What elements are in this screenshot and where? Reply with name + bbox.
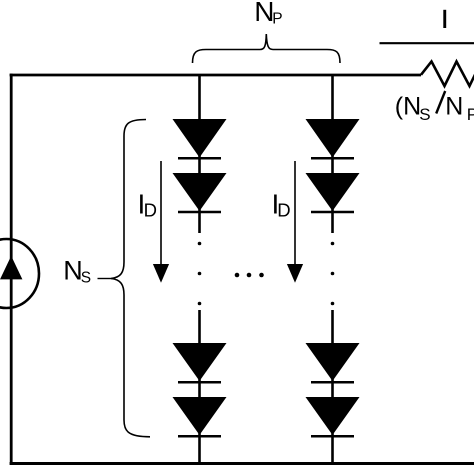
svg-text:P: P	[467, 105, 474, 124]
svg-text:S: S	[81, 269, 91, 286]
svg-text:S: S	[419, 105, 430, 124]
svg-text:D: D	[144, 200, 157, 221]
svg-text:P: P	[272, 10, 282, 27]
svg-text:(N: (N	[395, 93, 421, 121]
svg-text:D: D	[277, 200, 290, 221]
svg-text:N: N	[445, 93, 463, 121]
